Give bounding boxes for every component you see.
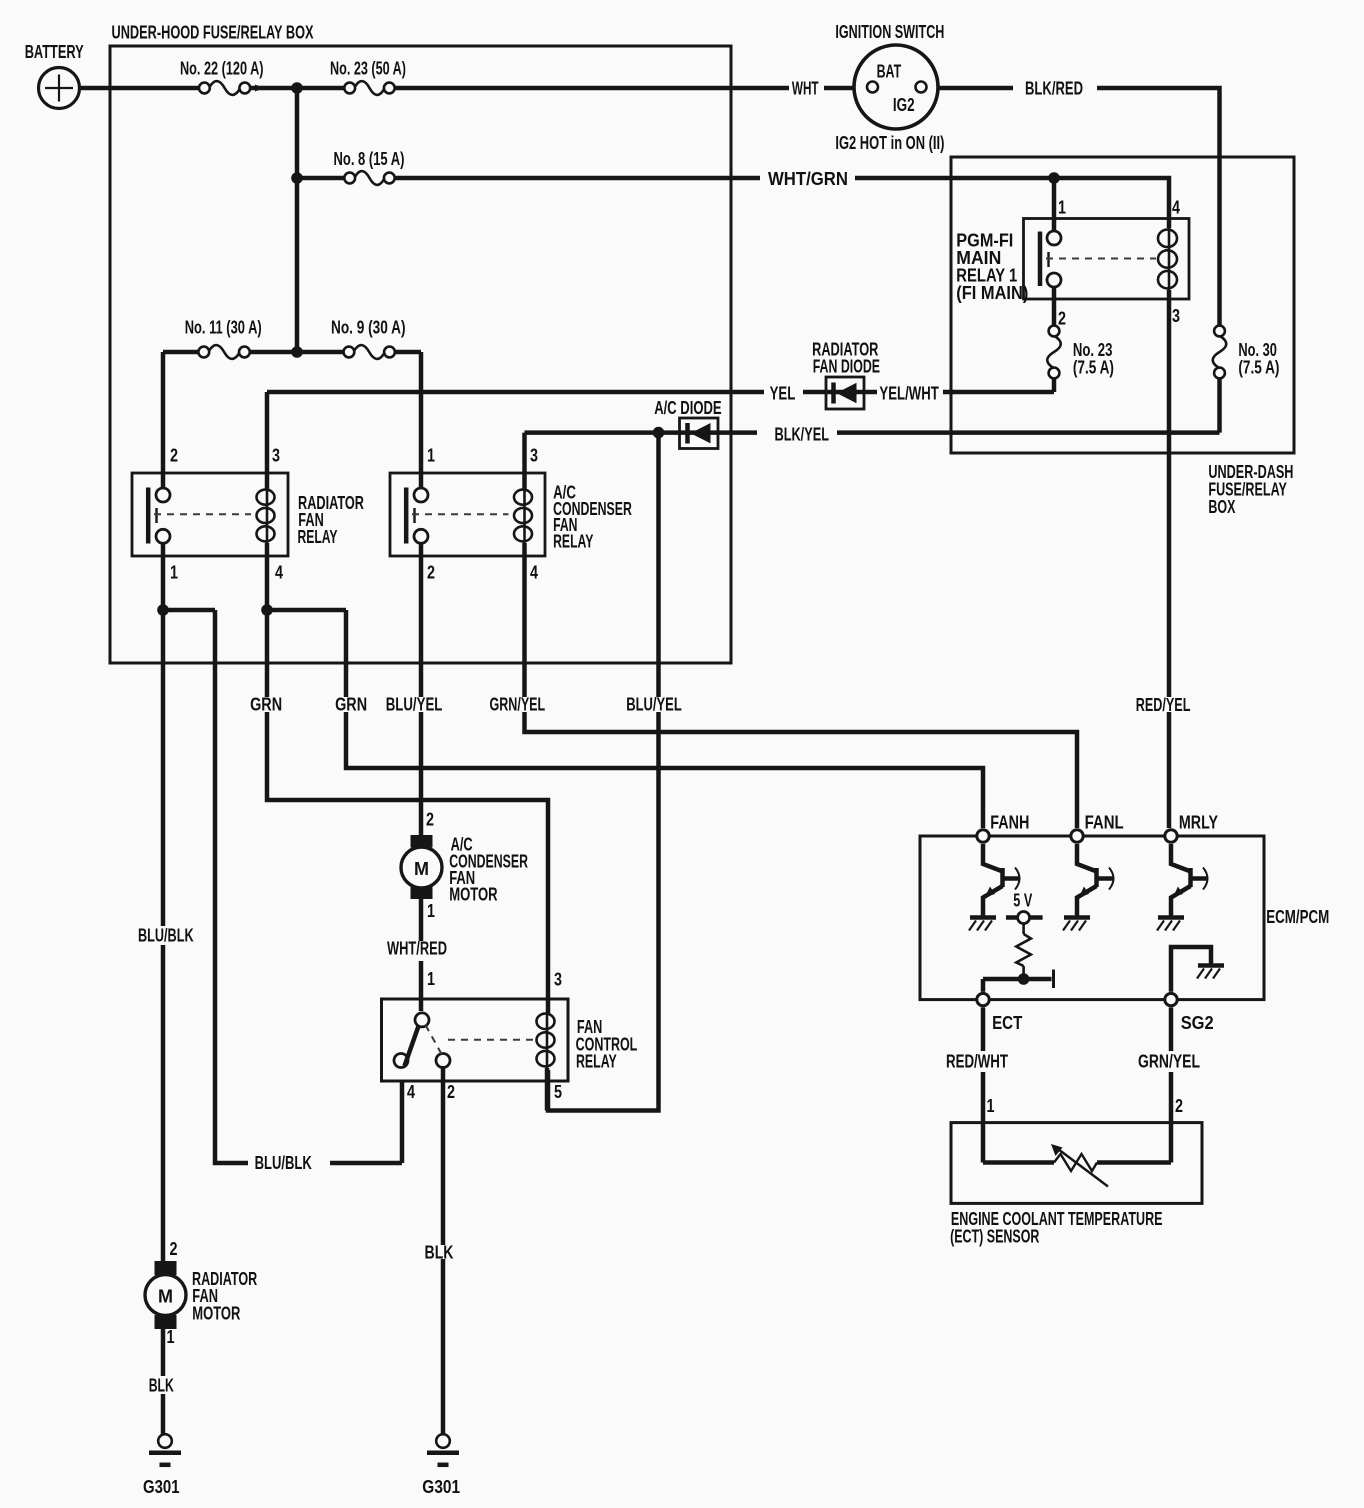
- svg-text:RED/WHT: RED/WHT: [946, 1052, 1008, 1072]
- svg-text:YEL: YEL: [770, 383, 796, 403]
- svg-text:3: 3: [1172, 306, 1180, 326]
- svg-text:IGNITION SWITCH: IGNITION SWITCH: [835, 22, 944, 42]
- svg-text:GRN: GRN: [250, 695, 282, 715]
- svg-text:BLK/RED: BLK/RED: [1025, 79, 1083, 99]
- svg-text:BAT: BAT: [877, 62, 902, 82]
- svg-text:2: 2: [1175, 1096, 1183, 1116]
- svg-text:1: 1: [987, 1096, 995, 1116]
- svg-text:1: 1: [167, 1327, 175, 1347]
- svg-text:GRN/YEL: GRN/YEL: [1138, 1052, 1200, 1072]
- svg-text:2: 2: [1058, 309, 1066, 329]
- svg-text:RED/YEL: RED/YEL: [1136, 695, 1191, 715]
- svg-text:2: 2: [447, 1082, 455, 1102]
- svg-text:No. 22 (120 A): No. 22 (120 A): [180, 59, 264, 79]
- svg-text:IG2 HOT in ON (II): IG2 HOT in ON (II): [835, 133, 944, 153]
- svg-text:1: 1: [427, 901, 435, 921]
- svg-text:4: 4: [1172, 198, 1180, 218]
- svg-text:1: 1: [1058, 198, 1066, 218]
- svg-text:FANH: FANH: [990, 813, 1029, 833]
- svg-text:BOX: BOX: [1208, 497, 1235, 517]
- svg-text:3: 3: [272, 446, 280, 466]
- svg-text:IG2: IG2: [893, 95, 915, 115]
- svg-text:BLK: BLK: [149, 1376, 174, 1396]
- svg-text:2: 2: [427, 563, 435, 583]
- svg-text:2: 2: [426, 810, 434, 830]
- svg-text:UNDER-HOOD FUSE/RELAY BOX: UNDER-HOOD FUSE/RELAY BOX: [112, 23, 314, 43]
- svg-text:No. 23 (50 A): No. 23 (50 A): [330, 59, 406, 79]
- svg-text:GRN/YEL: GRN/YEL: [490, 695, 546, 715]
- svg-text:No. 8 (15 A): No. 8 (15 A): [334, 149, 405, 169]
- svg-text:3: 3: [530, 446, 538, 466]
- svg-text:G301: G301: [422, 1477, 460, 1497]
- svg-text:1: 1: [170, 563, 178, 583]
- svg-text:(7.5 A): (7.5 A): [1238, 358, 1279, 378]
- svg-text:MRLY: MRLY: [1179, 813, 1218, 833]
- svg-text:MOTOR: MOTOR: [449, 884, 497, 904]
- svg-text:4: 4: [530, 563, 538, 583]
- svg-text:ECM/PCM: ECM/PCM: [1266, 907, 1329, 927]
- svg-text:G301: G301: [143, 1477, 180, 1497]
- svg-text:ECT: ECT: [992, 1013, 1022, 1033]
- svg-text:MOTOR: MOTOR: [192, 1303, 240, 1323]
- svg-text:BATTERY: BATTERY: [25, 42, 84, 62]
- svg-text:(7.5 A): (7.5 A): [1073, 358, 1114, 378]
- svg-text:3: 3: [554, 970, 562, 990]
- svg-text:FAN DIODE: FAN DIODE: [813, 356, 880, 376]
- svg-text:RELAY: RELAY: [298, 527, 338, 547]
- svg-text:WHT/RED: WHT/RED: [387, 939, 447, 959]
- svg-text:BLK: BLK: [425, 1243, 454, 1263]
- svg-text:No. 11 (30 A): No. 11 (30 A): [185, 318, 262, 338]
- svg-text:2: 2: [170, 446, 178, 466]
- svg-text:BLU/YEL: BLU/YEL: [626, 695, 682, 715]
- svg-text:M: M: [414, 859, 429, 879]
- svg-text:WHT/GRN: WHT/GRN: [768, 169, 848, 189]
- svg-text:4: 4: [407, 1082, 415, 1102]
- svg-text:WHT: WHT: [792, 79, 819, 99]
- svg-text:GRN: GRN: [335, 695, 367, 715]
- svg-text:2: 2: [170, 1239, 178, 1259]
- svg-text:No. 9 (30 A): No. 9 (30 A): [331, 318, 406, 338]
- svg-text:YEL/WHT: YEL/WHT: [879, 383, 938, 403]
- svg-text:5 V: 5 V: [1013, 891, 1032, 911]
- svg-text:M: M: [158, 1287, 173, 1307]
- svg-text:BLU/YEL: BLU/YEL: [386, 695, 443, 715]
- svg-text:SG2: SG2: [1181, 1013, 1214, 1033]
- svg-text:(ECT) SENSOR: (ECT) SENSOR: [950, 1226, 1039, 1246]
- svg-text:5: 5: [554, 1082, 562, 1102]
- svg-text:BLU/BLK: BLU/BLK: [255, 1153, 312, 1173]
- svg-text:RELAY: RELAY: [553, 532, 593, 552]
- svg-text:FANL: FANL: [1085, 813, 1124, 833]
- svg-text:(FI MAIN): (FI MAIN): [956, 283, 1028, 303]
- svg-text:BLU/BLK: BLU/BLK: [138, 926, 194, 946]
- svg-text:1: 1: [427, 969, 435, 989]
- svg-text:1: 1: [427, 446, 435, 466]
- svg-text:BLK/YEL: BLK/YEL: [775, 425, 830, 445]
- svg-text:A/C DIODE: A/C DIODE: [654, 398, 721, 418]
- svg-text:RELAY: RELAY: [576, 1051, 617, 1071]
- svg-text:4: 4: [275, 563, 283, 583]
